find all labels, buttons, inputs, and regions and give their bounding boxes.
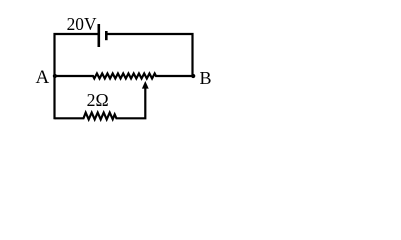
svg-text:2Ω: 2Ω	[87, 90, 109, 110]
svg-text:B: B	[200, 68, 212, 88]
svg-text:20V: 20V	[67, 14, 97, 34]
svg-text:A: A	[36, 67, 50, 88]
